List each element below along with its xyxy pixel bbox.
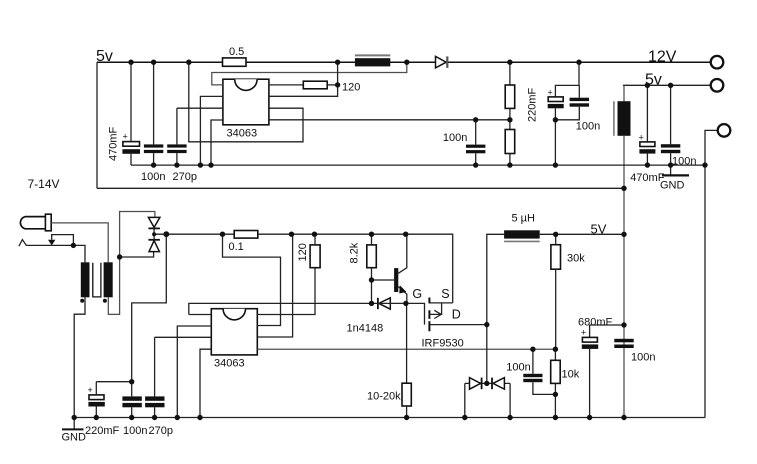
wire right gnd vertical — [704, 165, 706, 417]
svg-text:+: + — [123, 132, 128, 142]
wire left input vertical — [96, 62, 98, 188]
capacitor C2 100n — [141, 62, 165, 183]
svg-text:GND: GND — [660, 180, 685, 192]
capacitor C10 100n — [122, 396, 147, 437]
diode D3 bottom — [148, 234, 160, 251]
wire lower ground rail — [74, 417, 705, 419]
capacitor C8 100n — [661, 85, 697, 167]
wire U2 pin1 left — [189, 314, 212, 316]
op-amp U2 34063 box — [211, 309, 257, 370]
junction dots top — [128, 60, 707, 192]
svg-text:270p: 270p — [173, 171, 197, 183]
wire lower supply rail right — [258, 234, 453, 303]
node 12V label — [648, 49, 677, 66]
svg-text:34063: 34063 — [227, 128, 258, 140]
wire 5V output rail — [540, 233, 624, 235]
wire gnd terminal link — [705, 130, 718, 165]
diode D2 top — [148, 217, 160, 234]
capacitor C6 100n — [555, 85, 600, 132]
wire U2 pin3 to 270p — [155, 336, 212, 338]
svg-text:100n: 100n — [506, 362, 530, 374]
wire U1 pin gnd left — [200, 96, 223, 165]
capacitor C3 270p — [167, 108, 197, 183]
resistor R7 8.2k — [349, 234, 377, 303]
wire U1 feedback line — [269, 119, 510, 121]
op-amp U1 34063 box — [223, 79, 269, 139]
svg-text:100n: 100n — [123, 425, 147, 437]
svg-text:D: D — [452, 308, 461, 322]
svg-text:+: + — [548, 88, 553, 98]
resistor R9 30k — [551, 234, 585, 349]
wire timing node riser x189 — [189, 62, 303, 142]
svg-text:12V: 12V — [648, 49, 677, 66]
node 5V label — [591, 222, 607, 237]
wire gate drive line — [189, 303, 372, 314]
svg-text:120: 120 — [297, 243, 309, 261]
connector J1 dc jack barrel — [20, 214, 51, 231]
resistor R8 10-20k — [367, 303, 411, 417]
svg-text:+: + — [88, 385, 93, 395]
svg-text:100n: 100n — [141, 171, 165, 183]
terminal 5v — [711, 79, 724, 92]
svg-text:5 µH: 5 µH — [512, 213, 536, 225]
wire x337 branch — [269, 62, 338, 96]
jack switch contact arrow — [48, 235, 73, 246]
wire top 12V rail — [97, 61, 711, 63]
wire U2 pin2 left down — [177, 326, 211, 418]
wire 5v output rail — [623, 84, 711, 86]
wire jack outer to transformer — [51, 223, 108, 262]
junction dots bottom — [71, 231, 627, 420]
svg-text:220mF: 220mF — [85, 425, 120, 437]
resistor R6 120 — [297, 234, 320, 267]
capacitor C5 220mF — [527, 62, 580, 165]
diode D4 1n4148 — [347, 298, 391, 335]
inductor L3 5uH — [504, 213, 540, 242]
transistor M1 IRF9530 — [372, 287, 487, 350]
svg-text:S: S — [441, 287, 449, 301]
svg-text:34063: 34063 — [214, 358, 245, 370]
node 5v input label — [96, 48, 113, 65]
transistor Q1 — [372, 234, 407, 303]
node 7-14V label — [28, 177, 60, 191]
terminal 12V — [711, 56, 724, 69]
wire lower supply rail — [154, 233, 234, 235]
node 5v output label — [645, 72, 662, 89]
wire U2 pin4 feedback line — [257, 348, 555, 350]
wire U2 pin1 right to R6 — [257, 268, 315, 315]
resistor R3 divider top — [505, 62, 515, 129]
wire U1 pin4 left down — [211, 120, 223, 165]
capacitor C14 100n — [614, 339, 655, 364]
wire U2 pin2 right sense loop — [223, 234, 281, 325]
svg-text:100n: 100n — [576, 121, 600, 133]
wire U2 pin4 left down — [200, 349, 211, 417]
capacitor C1 470mF — [108, 62, 141, 165]
wire U2 pin3 right to rail — [257, 234, 292, 337]
svg-text:100n: 100n — [631, 352, 655, 364]
svg-text:8.2k: 8.2k — [349, 242, 361, 263]
transformer T1 windings — [80, 262, 113, 303]
capacitor C11 270p — [145, 337, 173, 437]
resistor R1 0.5 — [223, 46, 247, 66]
wire U1 pin6 VCC loop — [212, 62, 407, 85]
inductor L2 vertical — [614, 85, 631, 417]
resistor R10 10k — [551, 349, 580, 417]
wire mid tap to filter caps — [132, 234, 167, 396]
svg-text:0.5: 0.5 — [229, 46, 244, 58]
svg-text:+: + — [581, 328, 586, 338]
resistor R5 0.1 — [229, 231, 258, 254]
capacitor C7 470mF — [630, 85, 665, 184]
svg-text:10-20k: 10-20k — [367, 391, 401, 403]
svg-text:220mF: 220mF — [527, 87, 539, 122]
svg-text:100n: 100n — [443, 132, 467, 144]
svg-text:10k: 10k — [562, 369, 580, 381]
diode D1 — [436, 56, 448, 68]
wire primary bottom to gnd — [74, 297, 85, 417]
wire drain riser — [487, 234, 504, 383]
ground symbol right — [660, 165, 689, 191]
svg-text:470mF: 470mF — [108, 126, 120, 161]
svg-text:1n4148: 1n4148 — [347, 322, 384, 334]
svg-text:G: G — [412, 287, 422, 301]
capacitor C12 100n — [506, 349, 555, 394]
svg-text:+: + — [639, 133, 644, 143]
svg-text:270p: 270p — [149, 425, 173, 437]
resistor R4 divider bottom — [505, 130, 515, 166]
svg-text:IRF9530: IRF9530 — [422, 338, 464, 350]
resistor R2 120 — [269, 81, 360, 93]
svg-text:GND: GND — [62, 432, 87, 444]
svg-text:0.1: 0.1 — [229, 241, 244, 253]
capacitor C9 220mF — [85, 382, 132, 437]
capacitor C4 100n — [443, 120, 486, 165]
capacitor C13 680mF — [578, 317, 624, 418]
diode D6 — [492, 378, 510, 418]
inductor L1 — [355, 55, 390, 66]
svg-text:120: 120 — [342, 82, 360, 94]
svg-text:30k: 30k — [567, 252, 585, 264]
wire secondary bottom up to diodes loop — [108, 212, 155, 315]
wire U1 pin3 to 270p — [177, 107, 223, 109]
wire lower diode return branch — [120, 252, 154, 257]
svg-text:7-14V: 7-14V — [28, 177, 60, 191]
wire jack center line with strain caret — [19, 240, 85, 263]
wire 5V feed line to lower converter — [97, 187, 624, 189]
svg-text:5V: 5V — [591, 222, 607, 237]
svg-text:680mF: 680mF — [578, 317, 613, 329]
ground symbol left — [62, 418, 87, 444]
diode D5 — [465, 378, 510, 418]
wire top ground rail — [131, 164, 705, 166]
terminal GND — [718, 124, 731, 137]
